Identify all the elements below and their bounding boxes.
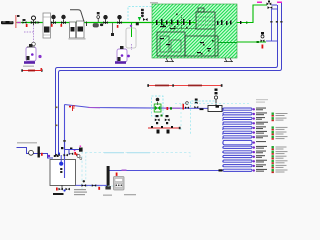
ticks on risers [270,21,272,23]
rupture disc (red bar) [15,15,17,28]
vessel V1 [43,13,51,38]
bottom-left feed line [17,148,54,159]
red dot [26,24,28,27]
green mark [161,115,163,117]
hangers below red [151,126,173,134]
red F glyph [73,106,76,111]
red drain below PSV [262,45,264,49]
control valve CV3 [62,15,66,19]
purple dot [48,155,50,157]
green main pipe [16,22,152,24]
squiggle fittings in box [156,19,232,53]
green valve [138,17,141,21]
instrument circle [156,98,160,102]
control unit box [114,177,125,191]
arrow [38,21,41,24]
box equipment 2 [157,32,185,56]
control valve CV2 [52,15,56,19]
flag [17,15,20,17]
red dot on return [116,173,118,176]
blue branch right [65,141,81,150]
column in box [196,12,215,29]
purple dot before manifold [226,108,229,111]
manifold inlet dashed header [222,110,224,170]
row end dots and labels [253,108,288,174]
cyan dashed box top [128,7,152,21]
manifold rows [223,108,252,171]
black mark on line [200,108,204,110]
silencer at inlet [1,21,14,24]
hatched package box [152,4,237,58]
red dot [41,153,43,156]
faint vessel [126,28,136,48]
valve at 144.5 [143,18,148,21]
tank discharge line right [76,184,108,186]
control valve CV1 [32,16,36,20]
green line through box [152,22,196,24]
text above cyan box [104,152,124,153]
tiny text right mid [256,99,268,100]
box equipment 3 [185,36,218,56]
filter base plate [69,38,86,40]
valve B1 [23,19,26,21]
magenta dash 1 [257,2,262,4]
control valve CV5 [118,15,122,19]
stack at 196 [194,99,198,109]
cyan box CB1 [152,96,164,116]
text above feed [17,142,37,144]
red header 2 [148,127,180,129]
valve cluster under header [155,115,170,124]
blue link valve to riser [266,40,277,42]
purple segment on header [88,107,100,109]
stack above bridge [214,89,217,106]
circle meter [29,150,34,155]
drain branch [112,23,114,33]
feet left [165,58,174,62]
red dimension line 2 [148,85,222,87]
inline silencer 2 [93,24,99,28]
blue riser lines [272,4,278,6]
pot P1 label [23,66,34,67]
green exit bottom [237,41,266,43]
control valve CV4 [104,15,108,19]
feet right [224,58,233,62]
cyan signal lines mid [191,101,217,107]
filter F1 [70,22,76,38]
pump glyph [38,147,40,158]
red dimension line [22,70,42,72]
status icons [272,113,288,174]
red dot after valve [167,107,169,110]
green control valve [154,104,161,112]
tank inlet drop [64,157,66,178]
black mark on return [219,169,223,171]
green exit top [237,5,267,23]
header corner down [64,105,66,160]
purple dash on return [122,170,127,171]
ticks on exit [240,21,241,24]
long return line [108,170,223,172]
magenta dash 2 [277,2,282,4]
text above hatch [150,2,158,3]
frame riser dots [54,155,56,157]
valve at 187 [186,102,189,105]
cyan dashed box bottom [82,153,190,191]
magenta segment [17,22,21,24]
tick [86,22,88,27]
green drop line [131,23,133,37]
filter F2 [77,21,85,38]
valve cluster above tank [56,147,74,156]
purple dashed drop to pot P1 [33,25,35,42]
swan neck pipe [70,10,84,22]
tank bottom outlet [61,185,63,189]
instrument stack IS2 [141,9,144,11]
tank [50,160,76,186]
interior piping details [170,23,196,29]
valve cluster top right [267,1,273,10]
pot P2 [117,49,127,62]
header line mid [65,105,224,109]
marks on frame verticals [56,107,58,109]
pump vertical [107,166,110,186]
PSV stack right [261,32,265,42]
red dot on frame corner [41,68,43,71]
purple dash into P2 [131,44,133,50]
pot P1 [26,47,36,61]
green dots [170,107,172,109]
bridge vessel [208,106,222,112]
tiny text bottom [74,189,86,190]
instrument stack IS1 [97,12,100,14]
small circles right of tank [77,155,80,158]
red tick [183,104,185,110]
